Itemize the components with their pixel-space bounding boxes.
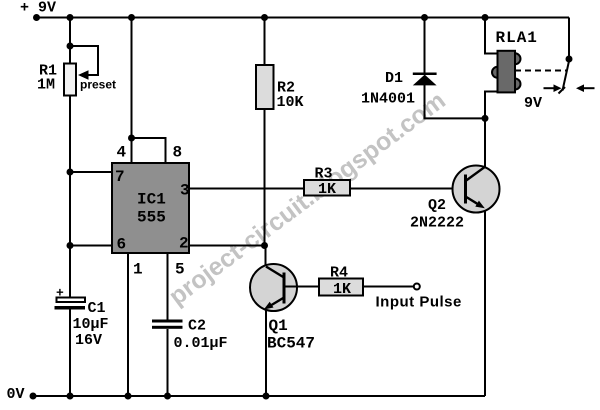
resistor R1 body (64, 64, 76, 96)
svg-text:16V: 16V (75, 332, 102, 349)
node junction ground x70 (67, 393, 74, 400)
svg-text:preset: preset (80, 78, 116, 92)
svg-text:2N2222: 2N2222 (410, 215, 464, 232)
capacitor C2 bottom plate (152, 326, 183, 329)
wire pin4-pin8 link (132, 138, 166, 163)
switch contact arrow left (544, 87, 555, 89)
node top rail left end (33, 14, 40, 21)
node junction pin7 (67, 169, 74, 176)
wire R2 top (264, 18, 266, 66)
switch contact arrow right (583, 87, 595, 89)
wire R3 to Q2 base (350, 188, 466, 190)
wire Q1 base to R4 (284, 286, 319, 288)
svg-text:Q1: Q1 (269, 317, 288, 335)
wire Q1 collector vertical (265, 246, 267, 267)
svg-text:7: 7 (115, 168, 125, 186)
node junction top rail x131 (128, 14, 135, 21)
node junction pin6 (67, 242, 74, 249)
resistor R3 body (304, 180, 350, 196)
relay RLA1 coil bumps (510, 53, 521, 64)
wire C2 bottom (167, 329, 169, 396)
wire pin7 (70, 171, 112, 173)
svg-text:10K: 10K (277, 94, 304, 111)
wire relay top feed (485, 18, 498, 54)
transistor Q1 collector line (266, 267, 284, 278)
svg-text:3: 3 (180, 182, 190, 200)
node junction ground x266 (263, 393, 270, 400)
svg-text:1M: 1M (37, 77, 55, 94)
node junction top rail x485 (482, 14, 489, 21)
wire preset wiper loop (70, 46, 98, 75)
capacitor C1 top plate (57, 298, 86, 303)
wire relay dashed actuator link (515, 70, 566, 72)
relay RLA1 coil body (498, 51, 516, 93)
wire R4 to input terminal (363, 286, 414, 288)
wire C1 bottom (69, 310, 71, 397)
svg-text:4: 4 (117, 144, 127, 162)
svg-text:6: 6 (117, 236, 127, 254)
svg-text:5: 5 (175, 261, 185, 279)
resistor R4 body (319, 279, 363, 296)
diode D1 cathode bar (413, 73, 437, 76)
node junction D1/relay/Q2 (482, 115, 489, 122)
wire Q2 collector vertical (484, 118, 486, 168)
wire relay bottom (485, 92, 498, 119)
wire R2 bottom to pin2 junction (264, 109, 266, 246)
preset wiper arrowhead (78, 70, 89, 80)
capacitor C1 bottom plate (55, 306, 86, 310)
wire ground rail 0V (33, 395, 485, 397)
svg-text:10µF: 10µF (73, 316, 109, 333)
svg-text:0V: 0V (7, 386, 25, 403)
transistor Q1 emitter line (272, 298, 285, 306)
wire pin4 branch from rail (131, 18, 133, 139)
wire R1 branch from top rail (69, 18, 71, 64)
svg-text:1N4001: 1N4001 (361, 91, 415, 108)
svg-text:RLA1: RLA1 (496, 29, 538, 47)
transistor Q2 emitter line (466, 197, 480, 205)
switch arm (563, 61, 570, 91)
wire Q1 emitter vertical (265, 310, 267, 397)
svg-text:2: 2 (179, 235, 189, 253)
node junction ground x167 (164, 393, 171, 400)
svg-text:R4: R4 (330, 265, 348, 282)
wire pin5 to C2 (167, 253, 169, 320)
wire pin3 to R3 (189, 188, 304, 190)
svg-text:BC547: BC547 (267, 335, 315, 353)
svg-text:D1: D1 (385, 70, 403, 87)
wire pin1 to ground rail (127, 253, 129, 396)
svg-text:9V: 9V (524, 95, 542, 112)
diode D1 triangle (413, 75, 437, 86)
wire D1 bottom (425, 85, 486, 118)
svg-text:8: 8 (173, 144, 183, 162)
node junction top rail x70 (67, 14, 74, 21)
svg-text:555: 555 (137, 209, 166, 227)
svg-text:0.01µF: 0.01µF (174, 335, 228, 352)
transistor Q2 base bar (464, 175, 467, 204)
node switch top terminal (566, 56, 573, 63)
node junction top rail x264 (261, 14, 268, 21)
svg-text:1K: 1K (318, 181, 336, 198)
wire top rail right drop to switch (568, 18, 570, 60)
op IC1 555 body (112, 163, 189, 253)
node junction pin2/R2/Q1 (261, 242, 268, 249)
svg-text:1: 1 (133, 261, 143, 279)
wire Q2 emitter vertical (484, 210, 486, 396)
transistor Q2 collector line (466, 167, 486, 181)
node junction pin4/8 (128, 135, 135, 142)
wire top rail +9V (36, 17, 569, 19)
transistor Q1 body (250, 264, 297, 311)
svg-text:+ 9V: + 9V (20, 0, 56, 17)
wire pin4 stub (131, 138, 133, 163)
transistor Q2 body (453, 166, 500, 213)
svg-text:Q2: Q2 (428, 197, 446, 214)
wire R1 bottom to C1 (69, 96, 71, 299)
svg-text:1K: 1K (333, 281, 351, 298)
wire pin2 (189, 245, 265, 247)
capacitor C2 top plate (152, 320, 183, 323)
wire pin6 (70, 245, 112, 247)
node input terminal open circle (414, 284, 420, 290)
svg-text:Input Pulse: Input Pulse (376, 294, 462, 311)
svg-text:IC1: IC1 (137, 191, 166, 209)
node junction ground x128 (125, 393, 132, 400)
svg-text:C2: C2 (188, 318, 206, 335)
switch arm end tick (559, 87, 566, 94)
transistor Q1 base bar (283, 273, 286, 304)
resistor R2 body (256, 65, 274, 109)
diode D1 branch wire top (424, 18, 426, 75)
node junction preset tap (67, 43, 74, 50)
svg-text:C1: C1 (88, 300, 106, 317)
node junction top rail x424 (421, 14, 428, 21)
node ground rail left end (30, 393, 37, 400)
